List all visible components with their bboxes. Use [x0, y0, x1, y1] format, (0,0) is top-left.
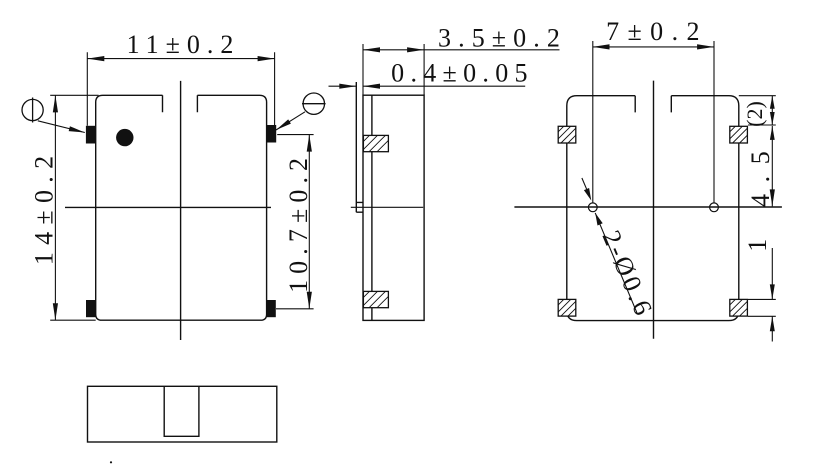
dim 11 arrows — [87, 56, 104, 61]
bottom view outline — [88, 386, 277, 442]
svg-text:0.4±0.05: 0.4±0.05 — [391, 59, 534, 88]
mounting hole right — [710, 203, 719, 212]
side view metal tab — [356, 82, 363, 212]
dim 3.5 arrows — [363, 47, 380, 52]
svg-text:11±0.2: 11±0.2 — [127, 30, 241, 59]
svg-text:(2): (2) — [742, 101, 767, 127]
dim 7 extension lines — [593, 41, 714, 203]
mounting hole left — [588, 203, 597, 212]
leader line from plus symbol to pad — [38, 121, 85, 133]
dim 11 extension lines — [87, 52, 274, 126]
bottom view notch — [164, 386, 199, 436]
svg-text:7±0.2: 7±0.2 — [606, 17, 708, 46]
right dim stack: (2) segment — [771, 96, 773, 125]
left view top cover hook ticks — [163, 95, 198, 112]
dim 10.7 extension lines — [276, 135, 314, 309]
right view bottom-left pad — [558, 299, 576, 316]
dim 3.5 line — [363, 49, 560, 51]
minus polarity symbol circle (right) — [303, 93, 324, 114]
side view body outline — [363, 95, 424, 320]
right view horizontal centerline — [514, 206, 782, 208]
right dim stack: 1 segments — [771, 248, 773, 342]
right view bottom-right pad — [730, 299, 748, 316]
dim 10.7 arrows — [307, 135, 312, 152]
right view body outline — [567, 96, 739, 321]
left view top-right terminal pad — [267, 125, 277, 143]
left view body outline — [96, 95, 267, 320]
hole leader line — [582, 178, 637, 313]
right view vertical centerline — [653, 81, 655, 339]
dim 14 arrows — [53, 95, 58, 112]
left view bottom-left pad — [86, 300, 96, 317]
right dim stack: 4.5 segment — [771, 126, 773, 206]
side view horizontal centerline — [351, 206, 423, 208]
dim 0.4 line right part — [363, 85, 525, 87]
dim 3.5 extension lines — [363, 44, 424, 95]
right view top-left pad — [558, 126, 576, 143]
dim 14 line — [54, 95, 56, 320]
dim 0.4 arrows — [339, 84, 356, 89]
dim 7 arrows — [593, 44, 610, 49]
dim 14 extension lines — [50, 95, 98, 320]
svg-text:14±0.2: 14±0.2 — [29, 149, 58, 266]
dim 11 line — [87, 58, 274, 60]
sound hole dot — [116, 129, 133, 146]
svg-text:1: 1 — [743, 239, 772, 252]
dim 7 line — [593, 46, 715, 48]
dim 0.4 line left part — [329, 85, 357, 87]
side view inner wall line — [371, 95, 373, 320]
side view bottom pad — [363, 291, 388, 307]
svg-text:4.5: 4.5 — [746, 140, 775, 207]
right view top-right pad — [730, 126, 748, 143]
right view top cover hook ticks — [635, 96, 671, 113]
leader line from minus symbol to pad — [276, 112, 305, 130]
svg-text:3.5±0.2: 3.5±0.2 — [438, 23, 567, 52]
dim 10.7 line — [308, 135, 310, 309]
dim 1 arrows — [770, 284, 775, 299]
left view vertical centerline — [180, 81, 182, 340]
svg-text:10.7±0.2: 10.7±0.2 — [284, 152, 313, 293]
dim 4.5 arrows — [770, 126, 775, 140]
left view top-left terminal pad — [86, 126, 96, 144]
side view top pad — [363, 135, 388, 151]
dim (2) arrows — [770, 96, 775, 109]
left view horizontal centerline — [65, 206, 271, 208]
left view bottom-right pad — [266, 300, 276, 317]
stray dot — [110, 461, 112, 463]
right dim extension lines — [739, 96, 776, 317]
plus polarity symbol circle (left) — [22, 99, 43, 120]
hole leader arrows — [584, 188, 591, 201]
